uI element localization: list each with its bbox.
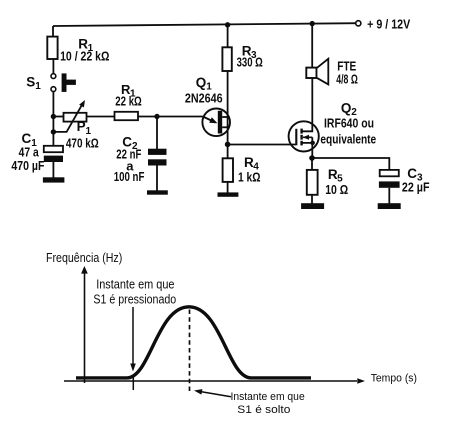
transistor Q2 circle [289, 121, 319, 151]
node on rail above R3 [225, 22, 230, 27]
transistor Q2 channel segments [300, 129, 302, 146]
svg-text:S1 é solto: S1 é solto [237, 404, 290, 416]
resistor R5 body [307, 170, 318, 195]
wire left drop from rail to R1 [52, 26, 54, 37]
svg-text:4/8 Ω: 4/8 Ω [336, 72, 358, 87]
capacitor C2 bottom plate [148, 159, 167, 165]
capacitor C2 top plate [148, 149, 167, 155]
wire R4 to ground [227, 182, 229, 193]
wire rail to speaker [311, 24, 313, 68]
wire R1 to S1 [52, 59, 54, 74]
potentiometer P1 body [64, 113, 87, 122]
capacitor C3 top plate [380, 170, 399, 176]
annotation solto text [231, 391, 305, 416]
resistor R1 (22k) body [115, 112, 139, 120]
ground below C3 [378, 203, 401, 209]
wire C2 to ground [156, 166, 158, 191]
wire rail to R3 [227, 25, 229, 48]
tick at curve rise on x-axis [132, 376, 134, 391]
svg-text:1: 1 [35, 81, 41, 92]
label C2 [122, 135, 138, 153]
label C1 [22, 131, 38, 149]
svg-text:+ 9 / 12V: + 9 / 12V [367, 17, 410, 32]
node B junction dot [51, 129, 56, 134]
label S1 [26, 74, 41, 92]
svg-text:Instante em que: Instante em que [96, 277, 174, 291]
svg-text:100 nF: 100 nF [114, 169, 145, 184]
ground below C2 [147, 190, 168, 194]
dashed line at peak [189, 310, 191, 392]
supply terminal circle [356, 21, 361, 26]
capacitor C1 top plate [44, 146, 63, 152]
wire node D to Q2 gate [228, 144, 297, 146]
svg-text:S1 é pressionado: S1 é pressionado [93, 292, 176, 306]
ground below R5 [301, 203, 324, 209]
svg-text:Instante em que: Instante em que [231, 391, 305, 403]
transistor Q2 body arrow [303, 135, 313, 140]
svg-text:22 µF: 22 µF [402, 180, 430, 195]
graph x-axis [64, 378, 365, 384]
ground below R4 [218, 192, 239, 196]
svg-text:P: P [77, 119, 86, 134]
annotation pressionado arrow [130, 307, 136, 372]
svg-text:equivalente: equivalente [320, 131, 376, 146]
label R4 [244, 155, 259, 173]
wire C3 to ground [388, 188, 390, 204]
svg-text:IRF640 ou: IRF640 ou [324, 115, 374, 130]
label R3 [242, 44, 257, 62]
wire node A to P1 [53, 116, 63, 118]
wire speaker to Q2 drain [311, 78, 313, 122]
label Q1 [196, 75, 212, 93]
wire node C down to C2 [156, 117, 158, 150]
switch S1 contact bottom [51, 87, 56, 92]
transistor Q1 emitter arrow [203, 117, 218, 124]
wire node E to C3 [312, 158, 389, 170]
label P1 [77, 119, 92, 137]
svg-text:Frequência (Hz): Frequência (Hz) [46, 251, 122, 265]
resistor R4 body [223, 158, 233, 182]
wire R3 through Q1 to node D [227, 71, 229, 144]
transistor Q2 source dot [310, 141, 315, 146]
wire P1 to R1 (22k) [87, 116, 115, 118]
svg-text:Tempo (s): Tempo (s) [371, 373, 417, 385]
svg-text:1 kΩ: 1 kΩ [238, 169, 261, 184]
svg-text:S: S [26, 74, 35, 89]
transistor Q1 B1 stub [222, 126, 227, 128]
label R1 (22k) [121, 82, 136, 100]
resistor R3 body [222, 47, 231, 71]
switch S1 contact top [51, 74, 56, 79]
node A junction dot [51, 114, 56, 119]
label C3 [407, 166, 423, 184]
node D junction dot [225, 142, 231, 148]
svg-text:2N2646: 2N2646 [185, 90, 223, 105]
node E junction dot [309, 155, 315, 161]
wire node E to R5 [311, 158, 313, 170]
node C junction dot [154, 114, 159, 119]
wire top supply rail [53, 23, 358, 26]
label R1 [78, 36, 93, 54]
transistor Q2 source stub [302, 137, 313, 143]
speaker FTE box [306, 68, 316, 78]
svg-text:10 Ω: 10 Ω [325, 182, 348, 197]
transistor Q2 gate bar [295, 129, 297, 145]
svg-text:Q: Q [196, 75, 207, 90]
annotation pressionado text [93, 277, 176, 306]
graph y-axis [81, 266, 88, 383]
frequency bell curve [76, 307, 311, 378]
wire C1 to ground [52, 162, 54, 178]
svg-text:Q: Q [341, 100, 352, 115]
resistor R1 (10/22k) body [47, 37, 57, 59]
svg-text:22 kΩ: 22 kΩ [115, 94, 142, 109]
label R5 [328, 167, 343, 185]
wire node D to R4 [227, 144, 229, 158]
svg-text:470 kΩ: 470 kΩ [66, 136, 99, 151]
svg-text:10 / 22 kΩ: 10 / 22 kΩ [60, 49, 109, 64]
capacitor C1 bottom plate [44, 156, 63, 162]
annotation solto arrow [194, 389, 231, 397]
speaker FTE horn [317, 59, 329, 85]
wire R1 to node C and Q1 emitter [138, 116, 203, 118]
capacitor C3 bottom plate [379, 181, 400, 187]
potentiometer P1 wiper arrow [53, 100, 85, 132]
transistor Q1 circle [202, 109, 230, 137]
wire S1 down to node A [52, 91, 54, 147]
wire Q2 source to node E [311, 143, 313, 158]
node on rail above FTE [310, 21, 315, 26]
transistor Q2 drain stub [302, 122, 313, 131]
svg-text:470 µF: 470 µF [11, 158, 44, 173]
wire R5 to ground [311, 195, 313, 204]
svg-text:330 Ω: 330 Ω [237, 55, 263, 70]
ground below C1 [43, 177, 65, 182]
transistor Q1 base bar [218, 111, 222, 134]
label Q2 [341, 100, 357, 118]
switch S1 pushbutton actuator [62, 73, 76, 92]
transistor Q1 B2 stub [222, 116, 227, 118]
